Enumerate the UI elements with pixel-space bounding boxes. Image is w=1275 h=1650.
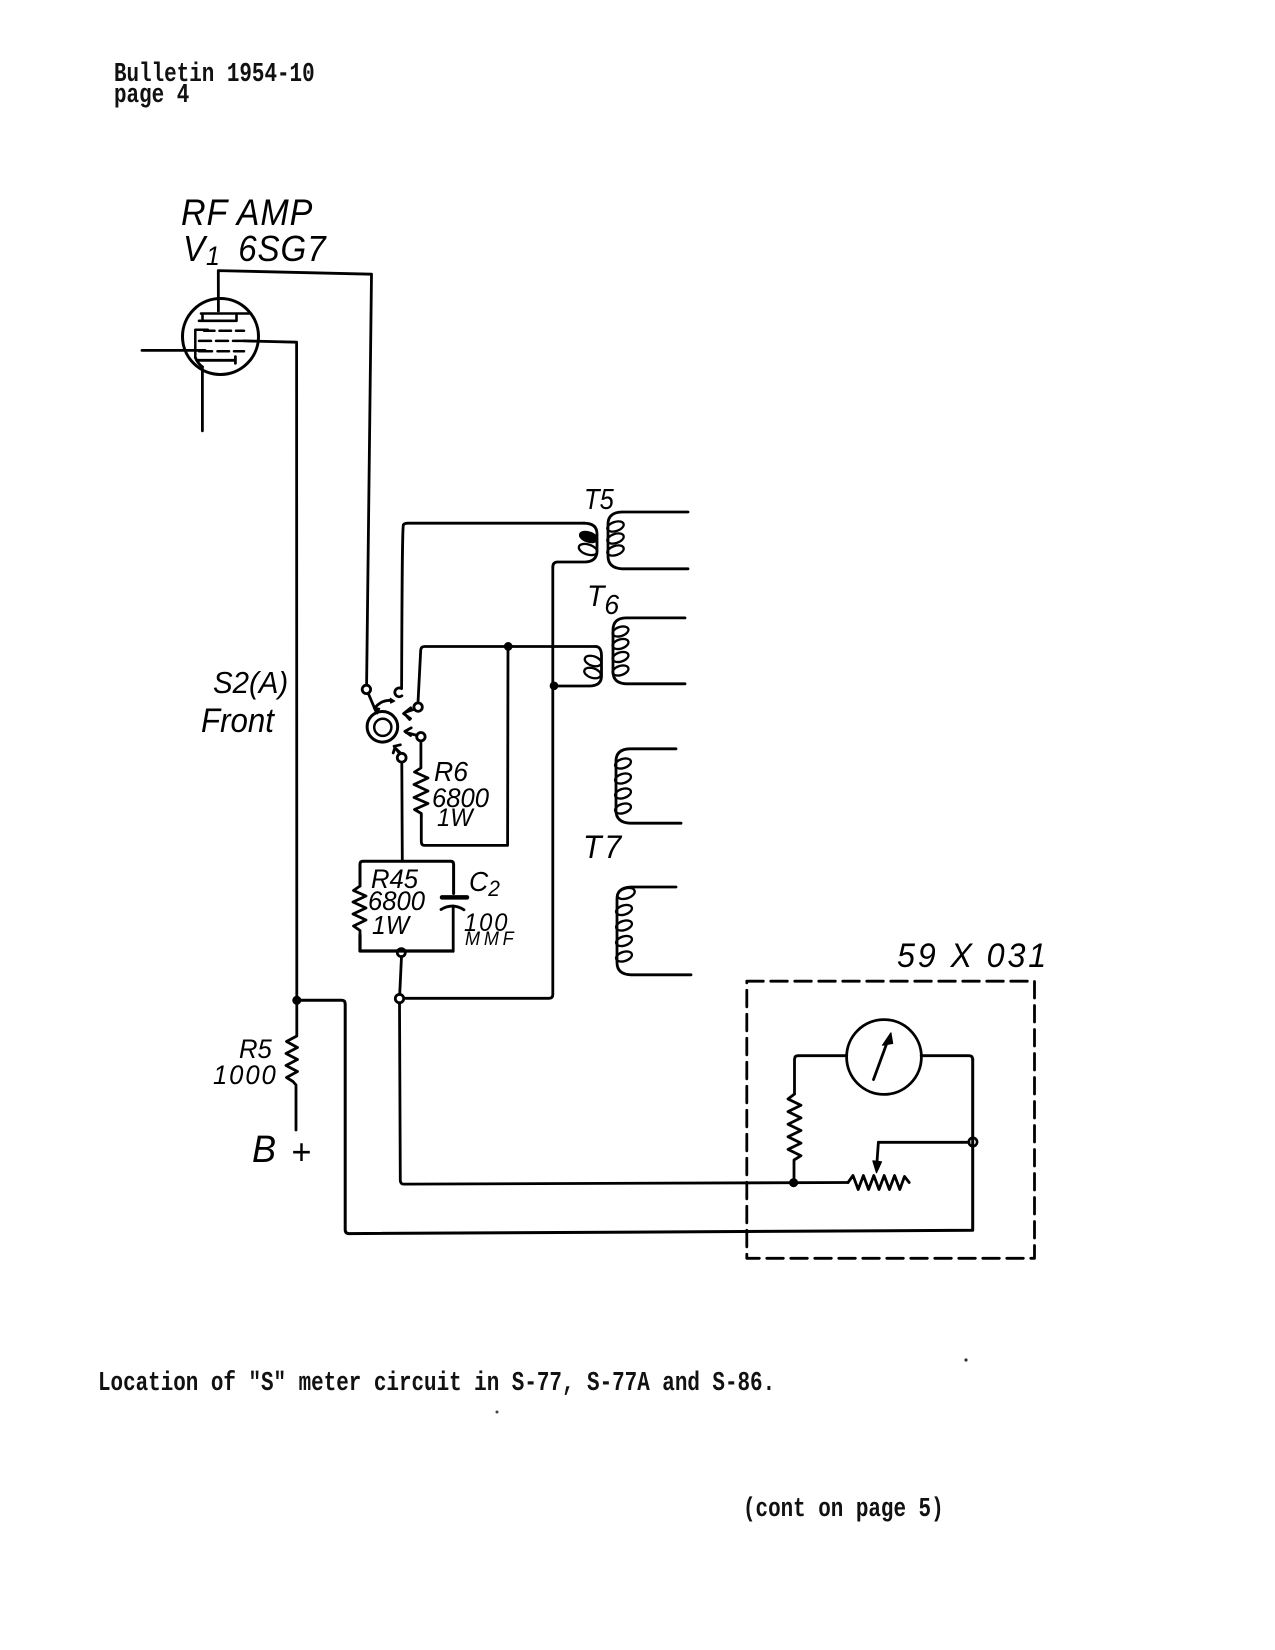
switch contact 1	[362, 685, 370, 693]
wire R45 node down and over to potentiometer	[400, 1003, 849, 1184]
wire box bottom to lower rail	[400, 957, 402, 995]
label T6	[587, 580, 620, 620]
potentiometer wiper arrow	[877, 1142, 879, 1164]
tube V1 plate	[199, 314, 249, 321]
wire screen grid right, down to B+ rail junction	[244, 341, 297, 996]
wire meter left lead	[795, 1056, 847, 1094]
label C2	[464, 865, 517, 949]
wire meter right lead	[921, 1056, 973, 1060]
switch contact 5	[397, 753, 406, 762]
svg-text:+: +	[291, 1132, 311, 1172]
label RF AMP	[181, 192, 313, 234]
label S2(A)	[213, 666, 288, 700]
meter needle	[874, 1040, 889, 1080]
scan speck	[496, 1411, 499, 1414]
label R5	[213, 1033, 278, 1090]
label T7	[583, 829, 624, 865]
svg-text:V1 6SG7: V1 6SG7	[183, 230, 327, 271]
header typewriter text	[114, 60, 315, 111]
wire junction down to R6 loop	[421, 646, 508, 845]
svg-text:MMF: MMF	[465, 928, 517, 950]
wire grid input (left)	[142, 349, 205, 352]
node ring wiper rail	[969, 1138, 977, 1146]
coil T6 primary	[558, 647, 602, 687]
svg-text:59 X 031: 59 X 031	[897, 937, 1049, 975]
switch S2(A) rotor	[367, 712, 398, 743]
resistor meter shunt	[788, 1094, 801, 1179]
svg-text:page 4: page 4	[114, 81, 189, 111]
svg-text:C2: C2	[469, 865, 500, 901]
label R45	[368, 863, 425, 940]
switch wiper arc to contact 2	[375, 700, 393, 708]
svg-text:(cont on page 5): (cont on page 5)	[743, 1495, 944, 1525]
switch arrow at contact 5	[393, 745, 401, 754]
svg-text:S2(A): S2(A)	[213, 666, 288, 700]
switch wiper arm to contact 1	[368, 694, 376, 713]
wire cathode lead down	[201, 367, 204, 431]
scan speck	[964, 1358, 967, 1361]
label V1 6SG7	[183, 230, 327, 271]
coil T7 upper	[616, 749, 681, 823]
svg-text:B: B	[252, 1127, 276, 1170]
wire contact 5 down to R45 box	[400, 762, 403, 861]
coil T7 lower	[617, 887, 691, 975]
R45/C2 box	[360, 861, 454, 893]
caption typewriter	[98, 1369, 775, 1399]
wire contact 3 up to T6 primary rail	[418, 647, 596, 703]
potentiometer element	[848, 1176, 909, 1190]
wire T5 primary bottom down the long vertical to lower rail	[404, 567, 553, 998]
svg-text:Front: Front	[201, 701, 276, 740]
coil T6 secondary	[613, 618, 685, 684]
tube V1 envelope	[183, 299, 259, 375]
label Front	[201, 701, 276, 740]
wire B+ junction over and down to meter loop bottom	[297, 1000, 973, 1233]
switch arrow at contact 4	[405, 728, 417, 736]
tube V1 grid dashes	[195, 330, 244, 358]
resistor R6	[414, 741, 428, 816]
coil T5 secondary	[608, 512, 688, 569]
coil T5 primary	[553, 523, 597, 567]
svg-text:1W: 1W	[372, 911, 411, 940]
node ring below R45 box	[397, 949, 405, 957]
label T5	[584, 482, 615, 515]
switch arrow at contact 3	[404, 708, 415, 720]
switch contact 4	[417, 733, 425, 741]
label R6	[432, 755, 489, 832]
svg-text:T6: T6	[587, 580, 620, 620]
tube V1 cathode	[195, 357, 235, 367]
wire plate top to switch contact 1	[218, 271, 371, 685]
label B+	[252, 1127, 311, 1172]
wire B+ rail junction	[293, 997, 301, 1005]
node junction on T6 rail	[505, 643, 512, 650]
node junction shunt to pot rail	[790, 1179, 798, 1187]
footer typewriter	[743, 1495, 944, 1525]
resistor R5	[286, 1000, 298, 1130]
svg-text:RF AMP: RF AMP	[181, 192, 313, 234]
switch contact 3	[414, 703, 422, 711]
svg-text:Location of "S" meter circuit: Location of "S" meter circuit in S-77, S…	[98, 1369, 775, 1399]
svg-text:1W: 1W	[437, 804, 475, 832]
wire contact 2 up and over to T5 primary	[402, 523, 584, 688]
label 59 X 031	[897, 937, 1049, 975]
wire wiper to meter right lead	[878, 1141, 969, 1144]
node junction T6 primary to vertical rail	[550, 682, 557, 689]
node ring on lower rail	[395, 994, 403, 1002]
meter M1	[847, 1020, 922, 1095]
meter box 59X031 dashed	[747, 981, 1035, 1258]
resistor R45	[353, 886, 366, 935]
svg-text:T5: T5	[584, 482, 615, 515]
svg-text:1000: 1000	[213, 1059, 278, 1090]
svg-text:T7: T7	[583, 829, 624, 865]
switch contact 2 (hook)	[395, 688, 402, 697]
capacitor C2 plates	[442, 895, 467, 900]
